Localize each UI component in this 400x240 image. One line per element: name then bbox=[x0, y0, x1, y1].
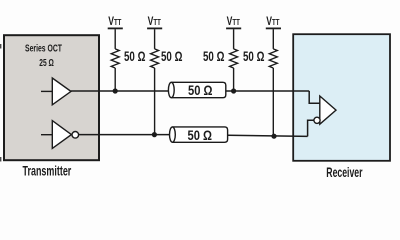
wire R2 to bottom line (crosses top line, no dot) bbox=[154, 68, 156, 135]
svg-text:50 Ω: 50 Ω bbox=[188, 127, 213, 143]
wire: receiver complement input step-up bbox=[308, 120, 314, 136]
resistor R3 50 ohm bbox=[230, 49, 238, 68]
wire R4 to bottom line (crosses top line, no dot) bbox=[272, 68, 274, 136]
transmission line T2 50 ohm bbox=[170, 127, 228, 142]
svg-text:VTT: VTT bbox=[227, 14, 241, 28]
buffer A1 input stub bbox=[41, 90, 52, 92]
svg-text:50 Ω: 50 Ω bbox=[243, 49, 265, 64]
wire: receiver true input step-down bbox=[309, 91, 320, 103]
bubble on A2 output bbox=[72, 132, 79, 139]
supply VTT 1 bbox=[108, 14, 123, 49]
svg-text:50 Ω: 50 Ω bbox=[188, 82, 213, 98]
receiver block bbox=[293, 34, 390, 161]
node: R3 junction dot bbox=[231, 88, 236, 93]
svg-text:25 Ω: 25 Ω bbox=[39, 58, 54, 69]
resistor R1 50 ohm bbox=[111, 49, 119, 68]
supply VTT 3 bbox=[226, 14, 241, 49]
wire R1 to top line bbox=[114, 68, 116, 91]
wire R3 to top line bbox=[233, 68, 235, 91]
svg-text:Series OCT: Series OCT bbox=[25, 43, 62, 54]
svg-text:Transmitter: Transmitter bbox=[23, 164, 72, 179]
buffer A2 input stub bbox=[41, 134, 52, 136]
svg-text:VTT: VTT bbox=[266, 14, 280, 28]
resistor R4 50 ohm bbox=[269, 49, 277, 68]
svg-text:50 Ω: 50 Ω bbox=[161, 49, 183, 64]
buffer A1 (non-inverting driver) bbox=[52, 78, 71, 105]
bubble on receiver inverting input bbox=[314, 117, 320, 123]
svg-text:VTT: VTT bbox=[108, 14, 122, 28]
bottom wire: driver A2 to transmission line T2 bbox=[79, 134, 170, 136]
buffer A2 (inverting driver) bbox=[52, 121, 71, 149]
svg-text:VTT: VTT bbox=[148, 14, 162, 28]
top wire: driver A1 to transmission line T1 bbox=[71, 90, 169, 92]
node: R4 junction dot bbox=[271, 134, 276, 139]
node: R2 junction dot bbox=[152, 132, 157, 137]
receiver buffer U1 (differential) bbox=[320, 96, 336, 124]
top wire: T1 to receiver bbox=[226, 90, 309, 92]
edge artifact marks bbox=[0, 44, 1, 49]
supply VTT 4 bbox=[266, 14, 281, 49]
supply VTT 2 bbox=[147, 14, 162, 49]
bottom wire: T2 to receiver bbox=[228, 135, 308, 136]
node: R1 junction dot bbox=[113, 88, 118, 93]
svg-text:50 Ω: 50 Ω bbox=[203, 49, 225, 64]
svg-text:50 Ω: 50 Ω bbox=[124, 49, 146, 64]
svg-text:Receiver: Receiver bbox=[326, 165, 363, 180]
transmission line T1 50 ohm bbox=[168, 82, 225, 97]
resistor R2 50 ohm bbox=[151, 49, 159, 68]
transmitter block bbox=[4, 35, 99, 160]
